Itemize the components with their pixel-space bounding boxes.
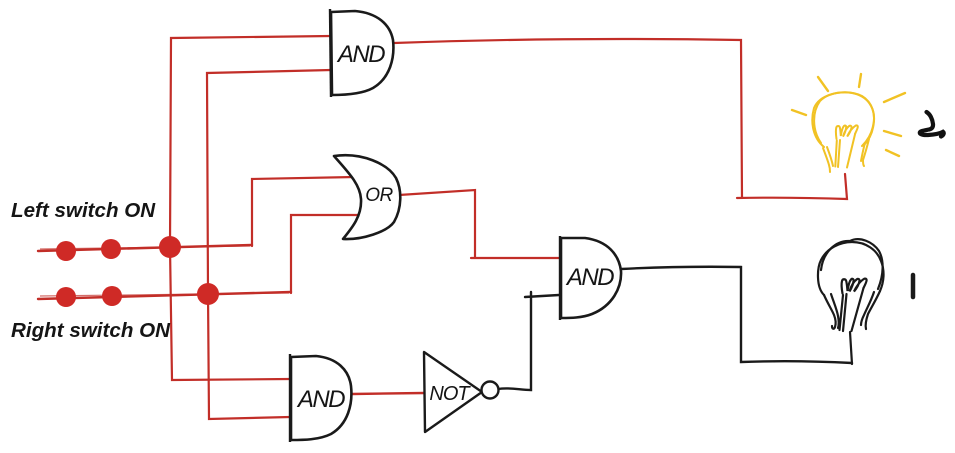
AND gate U1 (top) xyxy=(330,9,393,97)
wire vertical from left line to AND1 input A xyxy=(170,36,331,247)
svg-text:AND: AND xyxy=(336,41,385,68)
wire NOT output to AND2 input B xyxy=(498,292,531,390)
AND gate U3 (middle) xyxy=(560,236,621,320)
wire right-switch horizontal line xyxy=(38,292,291,299)
junction dot left-switch 1 xyxy=(56,241,76,261)
svg-text:AND: AND xyxy=(565,264,614,291)
svg-text:Right switch ON: Right switch ON xyxy=(11,319,171,342)
wire from left line up to OR input A xyxy=(252,177,355,246)
wire AND1 output to lamp 2 xyxy=(394,39,847,199)
svg-text:OR: OR xyxy=(365,185,393,206)
lamp 1 (bulb, black) xyxy=(818,239,884,364)
junction dot right-switch 1 xyxy=(56,287,76,307)
label '2' for lamp 2 xyxy=(920,112,944,137)
svg-text:NOT: NOT xyxy=(429,383,471,405)
wire vertical from right line down to AND3 input B xyxy=(208,293,290,419)
wire vertical from left line down to AND3 input A xyxy=(170,247,290,380)
wire vertical from right line to AND1 input B xyxy=(207,70,331,293)
junction dot left-switch 2 xyxy=(101,239,121,259)
wire AND2 output to lamp 1 xyxy=(621,267,852,363)
lamp 2 (lit bulb, yellow) xyxy=(812,92,874,172)
wire AND3 output to NOT input xyxy=(352,393,424,394)
wire OR output to AND2 input A xyxy=(399,190,559,258)
junction dot left-switch 3 (node L) xyxy=(159,236,181,258)
svg-text:AND: AND xyxy=(296,386,345,413)
lamp 2 rays xyxy=(792,74,905,156)
svg-text:Left switch ON: Left switch ON xyxy=(11,199,156,222)
OR gate U2 xyxy=(334,155,400,239)
AND gate U4 (bottom) xyxy=(290,354,351,442)
junction dot right-switch 3 (node R) xyxy=(197,283,219,305)
NOT gate U5 xyxy=(424,352,499,432)
label '1' for lamp 1 xyxy=(911,275,916,297)
wire left-switch horizontal line xyxy=(38,245,252,251)
junction dot right-switch 2 xyxy=(102,286,122,306)
wire from right line up to OR input B xyxy=(291,215,358,293)
